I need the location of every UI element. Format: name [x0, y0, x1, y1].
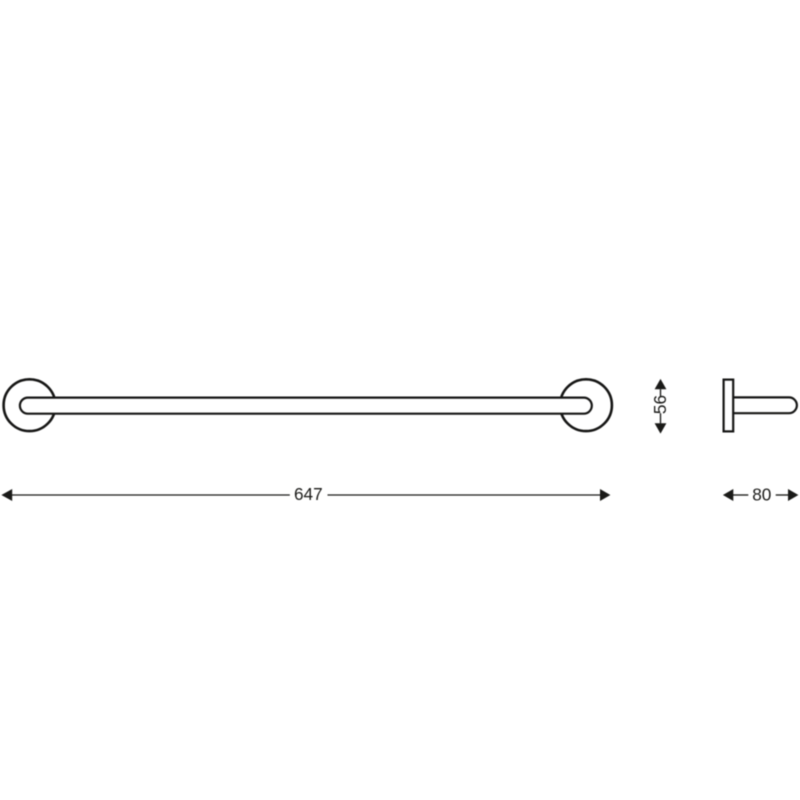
right flange circle: [560, 379, 612, 431]
dimension 56 line upper segment: [660, 389, 662, 396]
svg-text:647: 647: [294, 484, 323, 504]
dimension 80 line left segment: [733, 494, 748, 496]
dimension 647 right arrowhead: [600, 489, 610, 501]
dimension 647 left arrowhead: [1, 489, 12, 501]
dimension 80 right arrowhead: [788, 489, 798, 501]
dimension 80 line right segment: [776, 494, 789, 496]
svg-text:56: 56: [650, 395, 670, 414]
dimension 647 line right segment: [328, 494, 601, 496]
dimension 647 line left segment: [12, 494, 290, 496]
dimension 56 top arrowhead: [655, 379, 667, 389]
dimension 80 left arrowhead: [723, 489, 733, 501]
left flange circle: [4, 379, 56, 431]
towel bar front view: [20, 398, 592, 414]
side view wall plate: [724, 380, 734, 432]
dimension 56 line lower segment: [660, 413, 662, 423]
dimension 56 bottom arrowhead: [655, 423, 667, 433]
side view bar: [728, 397, 797, 413]
svg-text:80: 80: [752, 484, 771, 504]
